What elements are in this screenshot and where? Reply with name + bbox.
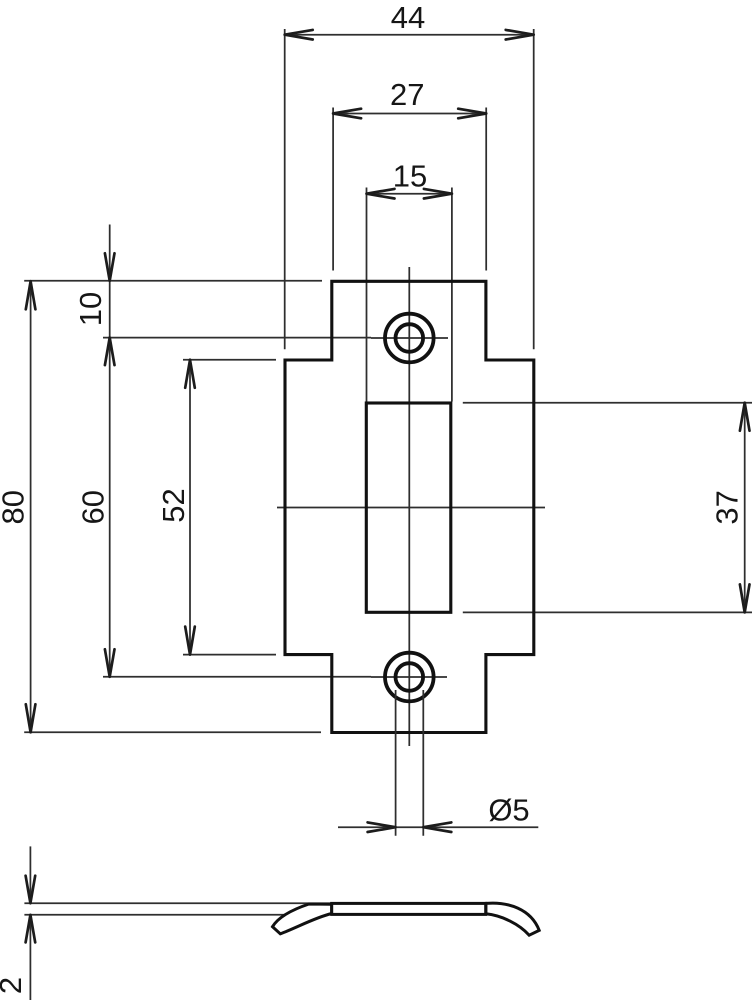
- side view left lip: [273, 904, 332, 934]
- svg-text:52: 52: [156, 488, 191, 522]
- dim line 15: [367, 188, 452, 402]
- svg-text:60: 60: [76, 490, 111, 524]
- side view thin top line: [24, 902, 331, 904]
- centerline vertical: [408, 267, 410, 746]
- svg-text:37: 37: [710, 490, 745, 524]
- hole bottom outer: [385, 653, 434, 702]
- svg-text:27: 27: [390, 77, 424, 112]
- svg-text:2: 2: [0, 977, 28, 994]
- slot rectangle: [366, 403, 451, 612]
- svg-text:44: 44: [391, 0, 425, 35]
- dim line 10 and 60 shared: [103, 225, 371, 677]
- svg-text:80: 80: [0, 490, 31, 524]
- plate outline: [285, 281, 534, 732]
- side view right lip: [486, 903, 539, 935]
- side view straight band: [332, 903, 486, 914]
- dim line 80: [24, 281, 322, 733]
- dim line 44: [285, 29, 534, 349]
- dim line 27: [333, 108, 486, 271]
- svg-text:10: 10: [73, 292, 108, 326]
- dim line diameter 5: [338, 690, 538, 836]
- dim line 2: [26, 846, 36, 1000]
- dim line 52: [183, 360, 276, 655]
- hole top inner: [396, 324, 424, 352]
- hole bottom inner: [396, 663, 424, 691]
- hole top outer: [385, 314, 434, 363]
- side view thin bottom line: [24, 914, 288, 916]
- svg-text:15: 15: [393, 158, 427, 193]
- crosshair hole bottom: [371, 676, 447, 678]
- crosshair hole top: [371, 337, 448, 339]
- dim line 37: [463, 403, 752, 613]
- svg-text:Ø5: Ø5: [488, 793, 529, 828]
- centerline horizontal middle: [277, 507, 545, 509]
